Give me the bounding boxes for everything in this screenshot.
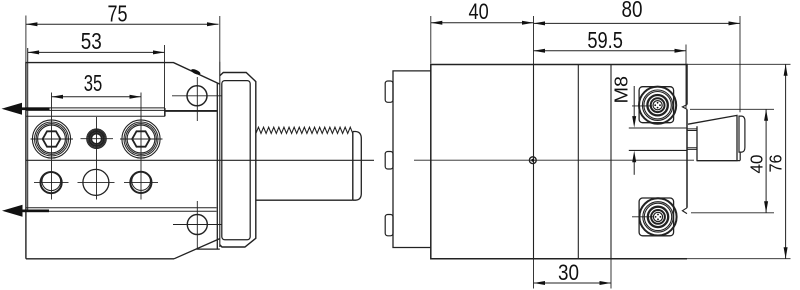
hole H2 crosshair [81, 117, 114, 200]
chevron marker bottom [682, 208, 687, 214]
wedge bottom extension [697, 160, 740, 162]
flange inner face [222, 81, 250, 240]
svg-text:53: 53 [81, 28, 102, 54]
dim 76 top extension [687, 63, 791, 65]
tab 3 [385, 215, 393, 236]
internal vertical line 1 [533, 65, 535, 259]
stud lines top [687, 129, 697, 131]
top slot connector [164, 108, 166, 116]
chamfer hole top right [187, 86, 207, 106]
flange outer outline [220, 73, 256, 248]
M8 leader line bottom [633, 159, 635, 175]
dim 59.5 arrows [534, 49, 687, 53]
left view body outline [26, 63, 220, 259]
screw boss top [639, 87, 674, 123]
shank bottom edge [256, 199, 353, 201]
slot top line [629, 127, 687, 129]
hole R2B crosshair [78, 181, 115, 183]
hole R2A crosshair [34, 182, 69, 184]
dim 40r bottom extension [691, 212, 774, 214]
dim 59.5 line [534, 50, 687, 52]
wedge nose corner [739, 152, 741, 161]
screw top [639, 87, 676, 124]
slot bottom line [629, 149, 687, 151]
hole H1 crosshair [31, 93, 74, 200]
top slot line b [26, 109, 165, 111]
svg-text:35: 35 [84, 70, 103, 96]
dim 80 arrows [534, 21, 741, 25]
dim 80 right extension [739, 16, 741, 112]
shared extension line x533.5 [533, 16, 535, 65]
internal vertical line 3 [610, 65, 612, 259]
wedge nose cap [739, 116, 745, 152]
dim 40 top line [431, 22, 534, 24]
svg-text:40: 40 [746, 154, 766, 173]
hole H2 small center [87, 129, 107, 149]
chamfer hole breakout ellipse [190, 68, 201, 76]
top slot thick line right [165, 110, 217, 112]
svg-text:30: 30 [558, 260, 579, 285]
left view bottom chamfer [174, 239, 220, 259]
dim 53 line [28, 51, 165, 53]
screw bottom [639, 198, 676, 235]
screw bottom centerline tick [632, 216, 653, 218]
dim 53 right extension [164, 45, 166, 116]
dim 75 left extension [25, 16, 27, 63]
hole H1 counterbore [32, 120, 70, 158]
right view main body [431, 65, 687, 259]
dim 75 line [26, 23, 219, 25]
hole H3 counterbore [122, 120, 160, 158]
dim 75 right extension [219, 16, 221, 62]
screw top centerline tick [632, 105, 652, 107]
left view body right edge [216, 83, 218, 249]
dim 53 arrows [28, 50, 165, 54]
chamfer hole crosshair [172, 77, 222, 121]
flange front edge line [219, 62, 221, 247]
M8 leader arrow up [632, 151, 636, 163]
svg-text:76: 76 [766, 154, 786, 172]
left view bottom step line [197, 248, 220, 250]
dim 76 bottom extension [687, 258, 791, 260]
black arrow top [2, 103, 50, 115]
stud lines bottom [687, 148, 697, 150]
internal vertical line 2 [577, 65, 579, 259]
dim 40r arrows [764, 109, 768, 213]
bottom right hole [187, 215, 207, 235]
top slot line a [26, 107, 165, 109]
dim 30 extensions [534, 259, 612, 289]
dim 40r top extension [690, 108, 774, 110]
hole R2C tapped [130, 172, 151, 193]
dim 30 line [534, 282, 612, 284]
bottom slot line a [26, 207, 217, 209]
right view centerline [414, 159, 694, 161]
dim 76 line [785, 64, 787, 258]
dim 76 arrows [784, 64, 788, 258]
svg-text:M8: M8 [612, 76, 632, 104]
tab 1 [385, 81, 393, 102]
dim 40r line [765, 109, 767, 213]
dim 40 top left extension [430, 16, 432, 64]
top slot line c [26, 115, 165, 117]
svg-text:75: 75 [108, 1, 128, 27]
left view bottom edge [26, 258, 174, 260]
left view inner left line [27, 48, 29, 211]
screw boss bottom [639, 198, 674, 236]
tab 2 [385, 152, 393, 170]
black arrow bottom [2, 205, 49, 217]
dim 80 line [534, 22, 741, 24]
svg-text:59.5: 59.5 [587, 27, 623, 53]
right view thin plate [393, 71, 431, 248]
dim 40 top arrows [431, 21, 534, 25]
dim 35 arrows [52, 95, 142, 99]
M8 leader arrow down [632, 116, 636, 128]
left view mid horizontal line [26, 159, 374, 161]
M8 leader line top [633, 86, 635, 118]
center mark [529, 157, 536, 164]
shank end cap [353, 132, 362, 201]
hole R2B plain [83, 169, 109, 195]
dim 59.5 right extension [685, 45, 687, 109]
chevron marker top [682, 105, 687, 110]
dim 35 line [52, 96, 142, 98]
bottom right hole crosshair [173, 201, 222, 249]
hole R2C crosshair [124, 181, 158, 183]
shank thread sawtooth [256, 127, 353, 133]
shank end edge [352, 132, 354, 201]
right view body right edge mid [686, 109, 688, 208]
hole R2A tapped [41, 172, 62, 193]
wedge clamp [688, 115, 737, 160]
bottom slot line b [26, 210, 217, 212]
dim 75 arrows [26, 22, 219, 26]
svg-text:80: 80 [622, 0, 643, 22]
dim 30 arrows [534, 281, 612, 285]
hole H3 crosshair [120, 93, 163, 200]
svg-text:40: 40 [469, 0, 489, 24]
